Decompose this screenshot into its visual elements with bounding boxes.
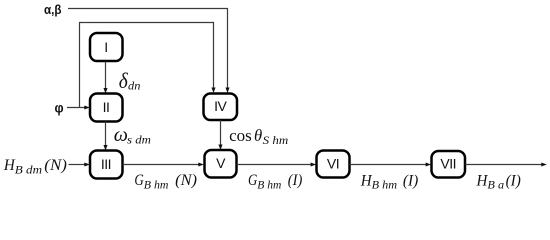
svg-text:cosθS hm: cosθS hm bbox=[229, 126, 288, 147]
svg-text:II: II bbox=[103, 99, 110, 115]
block III bbox=[90, 151, 123, 179]
svg-text:δdn: δdn bbox=[119, 68, 141, 93]
wire phi branch to block IV (inner top line) bbox=[80, 23, 216, 108]
wire block V to block VI bbox=[237, 162, 317, 166]
svg-text:III: III bbox=[101, 156, 111, 172]
svg-text:ωs dm: ωs dm bbox=[114, 124, 151, 146]
wire block I to block II bbox=[103, 62, 107, 94]
block VII bbox=[432, 151, 466, 178]
block VI bbox=[317, 151, 350, 178]
block IV bbox=[204, 94, 238, 121]
svg-text:φ: φ bbox=[55, 100, 64, 116]
svg-text:HB hm(I): HB hm(I) bbox=[360, 172, 418, 191]
svg-text:VI: VI bbox=[327, 156, 339, 172]
svg-text:V: V bbox=[216, 155, 226, 171]
svg-text:GB hm(I): GB hm(I) bbox=[248, 172, 302, 191]
wire block III to block V bbox=[123, 162, 204, 166]
wire block VI to block VII bbox=[350, 162, 432, 166]
block V bbox=[205, 150, 237, 178]
block I bbox=[90, 33, 123, 61]
svg-text:HB dm(N): HB dm(N) bbox=[3, 157, 67, 176]
wire block II to block III bbox=[103, 122, 107, 151]
wire phi into block II bbox=[67, 105, 90, 109]
svg-text:α,β: α,β bbox=[44, 2, 62, 17]
svg-text:HB a(I): HB a(I) bbox=[476, 172, 521, 191]
wire block IV to block V bbox=[218, 120, 222, 150]
svg-text:IV: IV bbox=[214, 98, 227, 114]
wire input H_B-dm(N) into block III bbox=[69, 162, 90, 166]
block II bbox=[90, 94, 123, 122]
svg-text:I: I bbox=[104, 39, 107, 55]
wire block VII output H_B-a(I) bbox=[465, 162, 547, 166]
svg-text:VII: VII bbox=[440, 156, 456, 172]
svg-text:GB hm(N): GB hm(N) bbox=[134, 172, 197, 191]
wire alpha-beta to block IV (outer top feedback line) bbox=[68, 9, 230, 94]
